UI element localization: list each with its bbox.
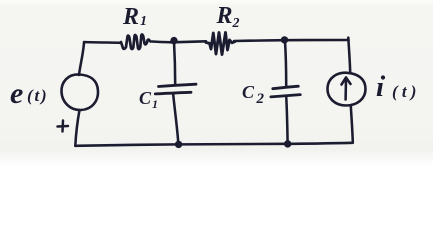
wire: R1 to node A bbox=[152, 40, 172, 43]
svg-text:2: 2 bbox=[256, 91, 265, 107]
capacitor C2 top lead bbox=[285, 41, 286, 85]
svg-text:(t): (t) bbox=[27, 86, 48, 105]
resistor R2 bbox=[206, 33, 235, 55]
node B junction dot bbox=[281, 36, 288, 43]
node C junction dot bbox=[175, 141, 182, 148]
svg-text:1: 1 bbox=[140, 14, 147, 29]
svg-text:1: 1 bbox=[152, 97, 158, 111]
svg-text:C: C bbox=[139, 88, 152, 108]
resistor R1 bbox=[121, 34, 151, 49]
wire: source bottom to bottom-left corner bbox=[75, 110, 79, 146]
wire: R2 to node B bbox=[234, 39, 284, 42]
current source arrow bbox=[342, 78, 351, 100]
svg-text:e: e bbox=[10, 77, 23, 110]
svg-text:2: 2 bbox=[232, 16, 240, 31]
capacitor C1 top lead bbox=[174, 42, 175, 86]
wire: top-left corner to R1 bbox=[84, 42, 121, 43]
bottom wire bbox=[75, 143, 353, 146]
capacitor C1 plates bbox=[159, 84, 197, 86]
wire: top-right corner down to current source bbox=[348, 38, 350, 73]
capacitor C2 bottom lead bbox=[286, 98, 287, 144]
svg-text:R: R bbox=[122, 4, 139, 30]
wire: current source bottom to bottom-right corner bbox=[351, 106, 353, 143]
svg-text:(t): (t) bbox=[392, 82, 421, 101]
voltage source e(t) bbox=[61, 74, 98, 110]
wire: source top to top-left corner bbox=[79, 43, 84, 75]
capacitor C2 plates bbox=[273, 86, 299, 89]
wire: node A to R2 bbox=[172, 41, 206, 42]
node D junction dot bbox=[284, 140, 291, 147]
wire: node B to top-right corner bbox=[284, 39, 349, 42]
current source i(t) bbox=[327, 73, 365, 106]
plus sign bbox=[58, 121, 69, 132]
svg-text:R: R bbox=[216, 3, 233, 29]
capacitor C1 bottom lead bbox=[173, 95, 178, 144]
svg-text:C: C bbox=[242, 82, 255, 102]
node A junction dot bbox=[170, 37, 177, 44]
